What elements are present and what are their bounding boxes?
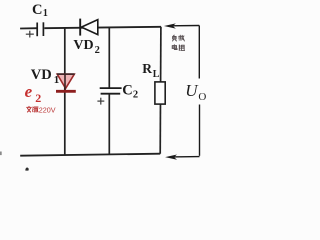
wire bottom — [20, 154, 160, 156]
svg-text:L: L — [153, 69, 160, 80]
wire VD1 branch vertical — [64, 27, 66, 155]
svg-text:VD: VD — [31, 67, 52, 83]
svg-text:2: 2 — [95, 45, 100, 56]
svg-text:R: R — [142, 61, 152, 76]
label RL — [142, 61, 160, 80]
svg-text:2: 2 — [133, 89, 138, 100]
plus polarity mark of C2 — [97, 98, 104, 105]
svg-text:VD: VD — [73, 38, 93, 53]
wire C2 branch upper — [108, 27, 110, 88]
plus polarity mark of C1 — [26, 31, 34, 38]
source label e2 — [25, 82, 42, 105]
svg-text:C: C — [32, 2, 42, 18]
label AC 220V (jiao) — [27, 106, 32, 112]
annotation bottom arrow (points to bottom output node) — [165, 155, 199, 160]
scan artifact bottom mark — [25, 168, 28, 171]
diode VD2 triangle — [81, 20, 97, 35]
label load-resistor (zai) — [179, 35, 185, 41]
annotation top arrow (points to top output node) — [164, 23, 199, 28]
label AC 220V (220V) — [39, 105, 56, 114]
label load-resistor (fu) — [172, 35, 176, 41]
wire through diode VD1 — [64, 74, 66, 91]
label C2 — [122, 83, 138, 101]
diode VD1 triangle — [57, 74, 75, 88]
svg-text:e: e — [25, 82, 33, 101]
svg-text:U: U — [185, 81, 199, 100]
scan artifact left-edge dash — [0, 152, 2, 156]
wire top main from C1 to top-right corner — [44, 27, 161, 28]
label load-resistor (zu) — [179, 45, 184, 51]
label UO output voltage — [185, 81, 206, 103]
capacitor C2 — [100, 88, 122, 94]
label AC 220V (liu) — [32, 107, 38, 112]
diode VD2 cathode bar — [79, 19, 81, 36]
svg-text:O: O — [198, 91, 206, 103]
label load-resistor (dian) — [172, 45, 177, 50]
wire C2 branch lower — [108, 94, 110, 155]
wire top-left from input terminal to C1 — [20, 27, 37, 29]
annotation right vertical line lower (UO bracket) — [199, 105, 201, 156]
svg-text:1: 1 — [43, 8, 48, 19]
resistor RL — [155, 82, 165, 104]
label VD2 — [73, 38, 99, 56]
label VD1 — [31, 67, 59, 86]
diode VD1 cathode bar — [56, 90, 76, 93]
label C1 — [32, 2, 48, 19]
capacitor C1 — [37, 22, 43, 36]
wire RL branch vertical — [159, 27, 162, 154]
svg-text:1: 1 — [54, 74, 60, 86]
svg-text:C: C — [122, 83, 132, 99]
svg-text:2: 2 — [35, 91, 41, 105]
svg-text:220V: 220V — [39, 105, 56, 114]
annotation right vertical line upper (UO bracket) — [198, 26, 200, 79]
